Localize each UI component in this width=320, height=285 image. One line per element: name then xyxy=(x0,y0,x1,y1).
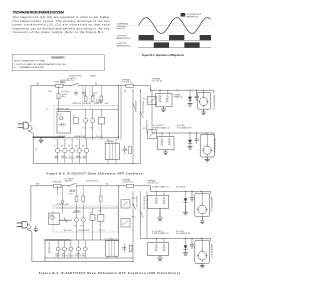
pulse row 1 baseline xyxy=(138,39,211,41)
resistor R1 xyxy=(57,94,60,99)
svg-text:RY2: RY2 xyxy=(81,225,84,227)
low voltage transformer T3 xyxy=(106,241,119,257)
svg-text:MAGNETRON: MAGNETRON xyxy=(187,15,199,18)
svg-text:frequency of the power supply.: frequency of the power supply. Refer to … xyxy=(13,30,105,34)
node J15 xyxy=(118,137,119,138)
H.V. capacitor C4 xyxy=(195,133,199,143)
node J1 xyxy=(118,85,119,86)
svg-text:H.V. DIODE: H.V. DIODE xyxy=(176,186,186,188)
node J9 xyxy=(196,90,197,91)
node J7 xyxy=(140,90,141,91)
node J12 xyxy=(196,132,197,133)
paragraph xyxy=(13,15,110,34)
svg-text:NOTE: CONDITIONS OF OVEN: NOTE: CONDITIONS OF OVEN xyxy=(14,61,45,63)
svg-text:CONTROL UNIT: CONTROL UNIT xyxy=(56,204,70,206)
node J2 xyxy=(150,90,151,91)
power transformer T2 xyxy=(148,242,169,255)
interlock switch S2 on drop B xyxy=(133,104,136,109)
magnetron MG2 case xyxy=(200,134,214,157)
svg-text:C: C xyxy=(99,127,101,129)
svg-text:RY-2: RY-2 xyxy=(132,216,136,218)
svg-text:WH: WH xyxy=(36,83,40,85)
svg-text:COOLING FAN: COOLING FAN xyxy=(48,242,51,254)
svg-text:MONITOR SW.: MONITOR SW. xyxy=(135,196,137,208)
noise filter coil L1 xyxy=(61,91,69,92)
wire: vertical drop C xyxy=(140,191,142,238)
wire: vertical drop C xyxy=(140,90,142,163)
svg-text:RELAY: RELAY xyxy=(75,209,81,212)
ground under T1 xyxy=(161,107,165,112)
node J11 xyxy=(189,132,190,133)
wire: control column 3 xyxy=(93,208,101,240)
node J14 xyxy=(132,163,133,164)
svg-text:POWER TRANS. (2): POWER TRANS. (2) xyxy=(152,232,169,235)
pulse row 1 bars (magnetron 1 on-periods) xyxy=(139,35,211,40)
svg-text:15A: 15A xyxy=(48,90,52,93)
svg-text:RY2: RY2 xyxy=(90,127,93,129)
wire: T1 primary drops xyxy=(160,90,168,93)
varistor RV1 xyxy=(74,118,79,124)
capacitor C1 block xyxy=(98,215,104,222)
svg-text:DAMP.: DAMP. xyxy=(76,253,81,256)
node J6 xyxy=(132,90,133,91)
wire: D2 branch drop xyxy=(189,133,191,140)
wire: bottom return bus xyxy=(33,162,140,164)
varistor RV1 xyxy=(90,215,95,221)
svg-text:Figure B-1. Operation of Magne: Figure B-1. Operation of Magnetron xyxy=(142,54,185,57)
magnetron MG2 tube xyxy=(198,252,207,261)
waveform left label: magnetron 1 output xyxy=(117,36,131,40)
svg-text:Figure B-2. R-22GV/GT Oven SCh: Figure B-2. R-22GV/GT Oven SChematic-OFF… xyxy=(47,171,143,175)
wire: D1 branch drop xyxy=(185,191,187,198)
connector CN-A circles xyxy=(70,190,72,192)
wire: neutral bus thin xyxy=(45,240,133,261)
control PCB outline xyxy=(57,112,71,134)
wire: control feed rail xyxy=(56,207,118,209)
resistor R2 xyxy=(129,245,132,252)
wire: top supply bus L side xyxy=(31,185,54,187)
wire: bus to right feeder xyxy=(133,86,150,91)
thermal cut-out TC1 xyxy=(126,84,134,87)
node J1 xyxy=(118,185,119,186)
control PCB relay coil xyxy=(51,216,55,220)
svg-text:MAGNETRON (2): MAGNETRON (2) xyxy=(213,138,216,153)
low voltage transformer T3 xyxy=(105,143,119,159)
svg-text:OVEN: OVEN xyxy=(54,156,59,158)
capacitor C2 xyxy=(122,245,126,252)
svg-text:WH/RD: WH/RD xyxy=(90,75,97,77)
wire: top supply bus centre xyxy=(76,185,118,187)
svg-text:BK: BK xyxy=(95,83,98,85)
svg-text:MF: MF xyxy=(82,145,84,147)
svg-text:L.V. TRANS.: L.V. TRANS. xyxy=(105,238,115,241)
svg-text:DAMP.: DAMP. xyxy=(76,155,81,158)
svg-text:MAGNETRON (2): MAGNETRON (2) xyxy=(210,244,213,259)
wire: heavy neutral bus xyxy=(33,136,64,138)
fuse F4 on column 3 xyxy=(100,96,103,101)
dashed phase verticals xyxy=(154,26,200,48)
node J4 xyxy=(177,90,178,91)
ground under T1 xyxy=(158,209,162,221)
magnetron fan motor MFM xyxy=(84,148,89,153)
wire: control column 2 xyxy=(92,109,94,139)
svg-text:MOTOR: MOTOR xyxy=(68,255,75,257)
svg-text:1. DOOR CLOSED OR 1 MINUTE AF: 1. DOOR CLOSED OR 1 MINUTE AFTER COOK OF… xyxy=(14,63,67,66)
svg-text:SCHEMATIC: SCHEMATIC xyxy=(51,56,65,59)
svg-text:INTERLOCK SW.: INTERLOCK SW. xyxy=(143,196,145,210)
pulse row 2 baseline xyxy=(138,47,211,49)
waveform left label: magnetron 2 output xyxy=(117,43,131,47)
relay contact RY-2 xyxy=(121,218,130,227)
svg-text:VARISTOR: VARISTOR xyxy=(73,102,82,105)
svg-text:CUT-OUT (1): CUT-OUT (1) xyxy=(122,182,133,184)
wire: control column 2 xyxy=(82,208,84,240)
wire: plug cord xyxy=(28,126,33,134)
node J21 xyxy=(185,191,186,192)
wire: control column 3 xyxy=(100,109,102,139)
resistor R1 xyxy=(61,200,64,203)
wire: plug cord xyxy=(27,225,32,233)
svg-text:MAGNETRON (1): MAGNETRON (1) xyxy=(117,37,131,40)
wire: column risers xyxy=(86,86,102,96)
relay contact RY-2 xyxy=(148,130,157,139)
H.V. diode D1 xyxy=(188,97,192,101)
fuse F3 on column 2 xyxy=(82,196,85,201)
sine wave: commercial power frequency xyxy=(139,18,211,34)
ground under T2 xyxy=(158,256,162,261)
relay RY2 coil xyxy=(81,218,85,222)
wire: T2 primary drops xyxy=(162,133,170,137)
wire: left drop to plug xyxy=(30,86,32,122)
wire: column risers lower xyxy=(77,201,101,208)
ground under D1 xyxy=(188,104,192,107)
svg-text:TO L.V.T: TO L.V.T xyxy=(96,136,103,138)
H.V. capacitor C4 xyxy=(190,238,194,249)
fuse F3 on column 2 xyxy=(91,96,94,101)
svg-text:RY-1: RY-1 xyxy=(132,198,136,200)
pulse row 2 bars (magnetron 2 on-periods) xyxy=(154,42,200,47)
ground under D2 xyxy=(183,253,187,256)
noise filter capacitor C5 xyxy=(74,91,77,96)
svg-text:CUT-OUT (1): CUT-OUT (1) xyxy=(122,81,133,83)
waveform left label: commercial frequency xyxy=(117,23,129,30)
wire xyxy=(119,185,127,187)
fuse F4 on column 3 xyxy=(99,196,102,201)
magnetron MG1 tube xyxy=(200,98,208,106)
svg-text:RV: RV xyxy=(73,115,76,117)
wire: neutral drop xyxy=(32,134,34,137)
wire: MG1 feed xyxy=(201,191,203,205)
magnetron MG1 tube xyxy=(198,205,207,214)
wire: auxiliary drop A2 xyxy=(120,86,122,140)
chassis ground G1 xyxy=(39,137,43,143)
ground under MG2 xyxy=(205,157,209,162)
control PCB relay coil xyxy=(60,117,63,120)
wire: vertical main drop A xyxy=(118,186,120,233)
ground under MG1 xyxy=(201,109,205,114)
interlock switch S3 on drop C xyxy=(141,112,144,117)
wire: T2 primary drops xyxy=(157,238,165,242)
node J5 xyxy=(156,238,157,239)
magnetron MG1 case xyxy=(195,193,210,216)
svg-text:MAGNETRON (1): MAGNETRON (1) xyxy=(213,95,216,110)
oven lamp OL xyxy=(56,247,60,251)
svg-text:CN-A: CN-A xyxy=(69,193,74,196)
power transformer T2 xyxy=(158,137,174,150)
wire: vertical feeder D xyxy=(151,90,153,133)
noise filter capacitor C6 xyxy=(82,91,85,96)
svg-text:RELAY RY1: RELAY RY1 xyxy=(83,102,92,105)
wire: vertical drop B xyxy=(132,191,134,261)
capacitor C2 xyxy=(123,146,127,153)
H.V. capacitor C3 xyxy=(190,191,194,202)
node J10 xyxy=(203,90,204,91)
fuse F1 xyxy=(56,84,63,87)
thermal cut-out TC1 xyxy=(126,184,134,187)
svg-text:TWO MAGNETRON OPERATION SYSTEM: TWO MAGNETRON OPERATION SYSTEM xyxy=(13,10,65,14)
wire: MG1 feed xyxy=(202,90,204,96)
node J3 xyxy=(156,191,157,192)
relay contact RY-1 xyxy=(148,97,157,105)
wire: control feed rail xyxy=(57,109,118,111)
interlock switch S3 on drop C xyxy=(141,212,144,217)
svg-text:DM: DM xyxy=(75,145,78,147)
H.V. diode D2 xyxy=(188,140,192,144)
svg-text:RD: RD xyxy=(46,109,49,111)
wire: bus to right feeder xyxy=(134,186,151,192)
svg-text:TO L.V.T: TO L.V.T xyxy=(98,230,105,232)
svg-text:FAN: FAN xyxy=(62,253,66,256)
svg-text:INTERLOCK SW.: INTERLOCK SW. xyxy=(142,101,144,115)
magnetron MG2 case xyxy=(195,240,210,263)
capacitor C1 block xyxy=(98,117,104,124)
svg-text:OVEN: OVEN xyxy=(55,254,60,256)
wire: diode branch drop xyxy=(189,90,191,97)
relay RY1 coil xyxy=(84,119,88,123)
wire: MB4 feeder xyxy=(141,238,211,241)
svg-text:POWER TRANS. (2): POWER TRANS. (2) xyxy=(153,127,170,130)
control PCB contact pair xyxy=(59,218,71,222)
svg-text:TRANS. (1): TRANS. (1) xyxy=(174,96,184,99)
wire: heavy neutral bus xyxy=(45,239,70,241)
svg-text:SWITCH: SWITCH xyxy=(67,80,75,82)
turntable motor TTM xyxy=(69,247,73,251)
wire: D2 branch drop xyxy=(185,238,187,245)
wire: MG2 feed xyxy=(206,133,208,146)
node J23 xyxy=(200,191,201,192)
wire xyxy=(63,85,71,87)
fan motor FM xyxy=(63,247,67,251)
node J5 xyxy=(161,132,162,133)
control PCB outline xyxy=(49,213,59,225)
svg-text:SURGE: SURGE xyxy=(62,94,68,96)
svg-text:FILTER: FILTER xyxy=(60,82,67,84)
svg-text:2. " * " APPEARS ON DISPLAY: 2. " * " APPEARS ON DISPLAY xyxy=(14,66,44,69)
interlock switch S2 on drop B xyxy=(133,204,136,209)
svg-text:KEY UNIT: KEY UNIT xyxy=(64,230,72,232)
svg-text:OL: OL xyxy=(53,145,55,147)
relay RY1 coil xyxy=(74,218,78,222)
relay contact RY-1 xyxy=(121,200,130,208)
power transformer T1 xyxy=(148,195,169,208)
svg-text:DISPLAY UNIT: DISPLAY UNIT xyxy=(74,135,85,138)
svg-text:BK: BK xyxy=(106,183,109,185)
svg-text:BL: BL xyxy=(36,149,38,151)
wire: control column 1 xyxy=(76,208,78,240)
wire: R1 leads xyxy=(58,86,60,112)
wire: R1 leads xyxy=(58,186,63,213)
wire: control column 1 xyxy=(85,109,87,139)
wire: vertical drop B xyxy=(132,90,134,163)
damper motor DM xyxy=(77,148,82,153)
ground under D2 xyxy=(188,147,192,150)
ground under MG2 xyxy=(200,264,204,268)
svg-text:MAGNETRON (2): MAGNETRON (2) xyxy=(117,44,131,47)
wire: T1 primary drops xyxy=(157,191,165,195)
svg-text:TM: TM xyxy=(68,145,71,147)
svg-text:KEY UNIT: KEY UNIT xyxy=(58,136,66,138)
oven lamp OL xyxy=(55,148,60,153)
svg-text:CAP.: CAP. xyxy=(98,209,102,212)
resistor R2 xyxy=(129,147,132,154)
power plug P xyxy=(17,223,22,226)
svg-text:L.V. TRANS.: L.V. TRANS. xyxy=(105,140,115,143)
wire: top supply bus centre xyxy=(79,85,119,87)
wire: left drop to plug xyxy=(30,186,32,221)
svg-text:H.V. CAPACITOR: H.V. CAPACITOR xyxy=(177,127,192,130)
svg-text:(50/60 Hz): (50/60 Hz) xyxy=(117,28,126,30)
svg-text:BK: BK xyxy=(124,91,127,93)
svg-text:H.V. CAPACITOR: H.V. CAPACITOR xyxy=(176,232,191,235)
svg-text:CUT-OUT (2): CUT-OUT (2) xyxy=(152,80,163,82)
magnetron MG1 case xyxy=(197,92,211,109)
control unit dashed enclosure xyxy=(53,206,118,232)
wire: left drop to bottom bus xyxy=(31,232,33,261)
svg-text:C: C xyxy=(99,224,101,226)
svg-text:TT: TT xyxy=(68,254,70,256)
svg-text:FM: FM xyxy=(61,145,64,147)
svg-text:POWER TRANS. (1): POWER TRANS. (1) xyxy=(152,185,169,188)
wire: MB3 feeder xyxy=(151,191,211,194)
svg-text:SUPPLY: SUPPLY xyxy=(96,102,103,104)
H.V. diode D1 xyxy=(184,198,188,202)
power plug P xyxy=(18,124,23,127)
svg-text:CAP.: CAP. xyxy=(105,102,109,105)
legend swatch xyxy=(181,13,186,17)
svg-text:NOISE FILTER: NOISE FILTER xyxy=(86,180,99,182)
node J19 xyxy=(191,238,192,239)
svg-text:RY1: RY1 xyxy=(74,225,77,227)
wire: left drop to bottom bus xyxy=(32,137,34,163)
turntable motor TTM xyxy=(70,148,75,153)
wire: drop A to heavy bus xyxy=(118,233,120,241)
wire: neutral bus thin xyxy=(64,136,119,138)
svg-text:2nd. INTERLOCK: 2nd. INTERLOCK xyxy=(145,120,147,134)
ground under D1 xyxy=(183,206,187,215)
wire: MB2 feeder xyxy=(152,133,214,136)
wire: vertical main drop A xyxy=(118,86,120,140)
interlock switch S1 xyxy=(71,83,79,85)
node J8 xyxy=(189,90,190,91)
svg-text:RY1: RY1 xyxy=(83,127,86,129)
power transformer T1 xyxy=(156,94,172,107)
fuse F1 xyxy=(54,184,61,187)
node J17 xyxy=(132,261,133,262)
magnetron fan motor MFM xyxy=(83,247,87,251)
wire: bottom return bus xyxy=(32,260,133,262)
wire: column risers xyxy=(77,186,101,196)
svg-text:MOTOR: MOTOR xyxy=(69,158,76,160)
svg-text:MG: MG xyxy=(83,156,86,158)
svg-text:TT: TT xyxy=(69,156,71,158)
control unit dashed enclosure xyxy=(54,106,118,140)
svg-text:CUT-OUT (2): CUT-OUT (2) xyxy=(147,182,158,184)
svg-text:CPU: CPU xyxy=(58,114,62,116)
wire: MG2 feed xyxy=(201,238,203,251)
svg-text:MOTOR: MOTOR xyxy=(76,158,83,160)
svg-text:SWITCH: SWITCH xyxy=(65,180,73,182)
node J22 xyxy=(191,191,192,192)
wire xyxy=(119,85,126,87)
wire xyxy=(61,185,68,187)
svg-text:WH: WH xyxy=(36,183,40,185)
node J20 xyxy=(200,238,201,239)
node J13 xyxy=(205,132,206,133)
svg-text:SHORT: SHORT xyxy=(92,93,98,95)
chassis ground G1 xyxy=(34,227,38,232)
control PCB contact pair xyxy=(59,123,66,126)
node J18 xyxy=(185,238,186,239)
noise filter dashed drop lines xyxy=(83,86,91,109)
node J3 xyxy=(159,90,160,91)
svg-text:MOTOR: MOTOR xyxy=(62,158,69,160)
ground under MG1 xyxy=(200,217,204,224)
wire: magnetron feeder bus xyxy=(151,90,214,93)
fan motor FM xyxy=(63,148,68,153)
interlock switch S1 xyxy=(68,183,76,185)
wire: top supply bus L side xyxy=(31,85,56,87)
ground under T2 xyxy=(163,150,167,155)
damper motor DM xyxy=(77,247,81,251)
magnetron MG2 tube xyxy=(203,146,211,154)
waveform axis (dashed zero line) xyxy=(128,25,212,27)
svg-text:Figure B-3. R-23GT/24GT Oven S: Figure B-3. R-23GT/24GT Oven SChematic-O… xyxy=(39,271,180,275)
svg-text:NOISE FILTER: NOISE FILTER xyxy=(69,75,82,77)
fuse F2 on column 1 xyxy=(84,96,87,101)
svg-text:MAGNETRON (1): MAGNETRON (1) xyxy=(210,197,213,212)
svg-text:FUSE 15A: FUSE 15A xyxy=(53,181,62,184)
wire: vertical feeder D xyxy=(146,191,148,238)
fuse F2 on column 1 xyxy=(75,196,78,201)
svg-text:DISPLAY UNIT: DISPLAY UNIT xyxy=(78,229,89,232)
H.V. capacitor C3 xyxy=(195,90,199,100)
H.V. diode D2 xyxy=(184,245,188,249)
note box frame xyxy=(12,55,104,71)
node J16 xyxy=(118,239,119,240)
relay RY2 coil xyxy=(91,119,95,123)
